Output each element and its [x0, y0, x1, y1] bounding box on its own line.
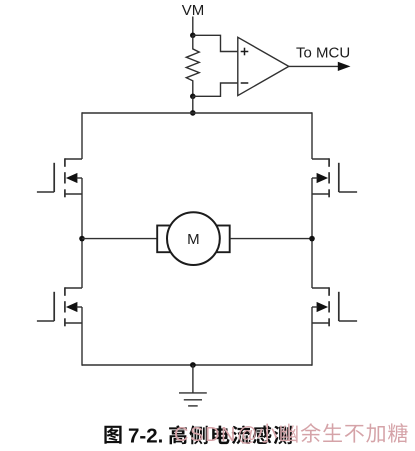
transistor Q4 low-side right (N-MOSFET, gate right) [312, 287, 357, 326]
svg-text:VM: VM [182, 2, 205, 19]
watermark username 小幽余生不加糖 [257, 423, 407, 443]
svg-text:M: M [187, 231, 200, 248]
transistor Q3 low-side left (N-MOSFET, gate left) [37, 287, 82, 326]
node: top rail junction [190, 110, 196, 116]
svg-text:To MCU: To MCU [296, 45, 350, 62]
motor M1 [167, 212, 220, 265]
wire op-amp inverting input [193, 83, 238, 96]
wire left leg upper [81, 112, 83, 159]
net VM label [182, 2, 205, 19]
wire top rail [82, 112, 312, 114]
motor terminal block right [214, 226, 230, 253]
wire motor right [230, 238, 312, 240]
wire right leg mid [311, 194, 313, 288]
node: resistor top junction [190, 33, 196, 39]
wire op-amp output with arrow To MCU [289, 62, 351, 71]
wire right leg upper [311, 112, 313, 159]
motor terminal block left [157, 226, 173, 253]
svg-text:CSDN@: CSDN@ [174, 424, 259, 446]
caption title 高侧电流感测 [169, 425, 292, 444]
node: ground junction on bottom rail [190, 362, 196, 368]
transistor Q2 high-side right (N-MOSFET, gate right) [312, 158, 357, 197]
transistor Q1 high-side left (N-MOSFET, gate left) [37, 158, 82, 197]
label To MCU [296, 45, 350, 62]
svg-text:7-2.: 7-2. [128, 425, 163, 448]
node: left motor junction [79, 236, 85, 242]
wire bottom rail [82, 364, 312, 366]
wire resistor to top rail [192, 96, 194, 113]
caption figure number 图 7-2. [104, 425, 163, 448]
op-amp U1 current sense amplifier [238, 37, 289, 95]
node: right motor junction [309, 236, 315, 242]
wire left leg lower [81, 323, 83, 366]
resistor R1 (shunt) [186, 35, 199, 96]
wire left leg mid [81, 194, 83, 288]
watermark CSDN@ [174, 424, 259, 446]
ground symbol [179, 365, 207, 406]
wire op-amp noninverting input [193, 35, 238, 51]
wire right leg lower [311, 323, 313, 366]
wire motor left [82, 238, 158, 240]
node: resistor bottom junction [190, 94, 196, 100]
wire VM to node [192, 17, 194, 36]
